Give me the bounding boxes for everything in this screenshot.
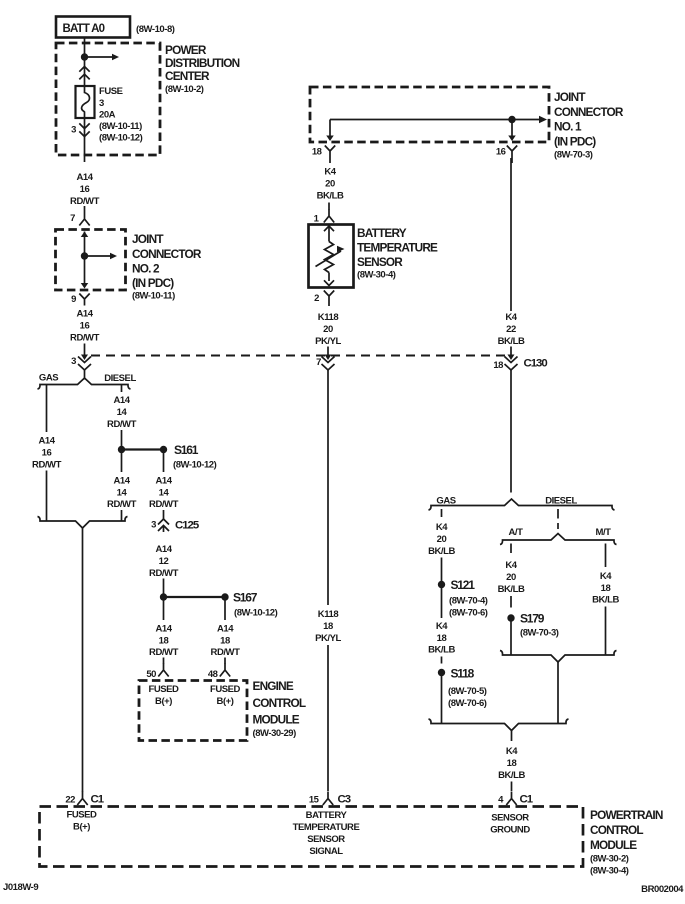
label FUSED B(+) pin48 — [210, 684, 241, 707]
svg-text:20: 20 — [437, 534, 447, 545]
svg-text:C130: C130 — [524, 358, 548, 370]
wire to C130 pin 3 — [84, 344, 86, 357]
split gas/diesel left — [38, 378, 131, 389]
svg-text:C125: C125 — [175, 520, 200, 532]
svg-text:(8W-30-29): (8W-30-29) — [253, 728, 297, 739]
splice S161 — [118, 446, 125, 453]
svg-text:(8W-10-12): (8W-10-12) — [234, 608, 278, 619]
wire JC2 internal — [84, 232, 86, 288]
svg-text:BK/LB: BK/LB — [498, 336, 525, 347]
connector pin 9 fork — [79, 294, 89, 306]
svg-text:16: 16 — [80, 321, 90, 332]
battery feed box BATT A0 — [56, 17, 130, 38]
connector pin 48 fork — [224, 658, 226, 664]
joint connector no.1 box — [310, 87, 549, 142]
svg-text:3: 3 — [99, 98, 104, 109]
wire label K4 18 BK/LB mt — [592, 571, 619, 606]
wire JC1 pin 16 drop — [511, 120, 513, 137]
wire below S161 left — [121, 453, 123, 472]
connector C130 dashed line — [91, 355, 506, 357]
svg-text:(8W-70-3): (8W-70-3) — [554, 150, 593, 161]
wire s161 right to C125 — [163, 510, 165, 519]
svg-text:K4: K4 — [506, 746, 518, 757]
svg-text:(8W-70-5): (8W-70-5) — [448, 686, 487, 697]
svg-text:K4: K4 — [324, 167, 336, 178]
svg-text:CONNECTOR: CONNECTOR — [132, 247, 202, 261]
svg-text:A14: A14 — [38, 436, 55, 447]
label POWER DISTRIBUTION CENTER — [165, 43, 240, 95]
powertrain control module box — [40, 807, 584, 867]
svg-text:18: 18 — [159, 636, 169, 647]
wire M/T upper — [605, 544, 607, 568]
svg-text:3: 3 — [71, 356, 76, 367]
svg-text:2: 2 — [314, 293, 319, 304]
svg-text:(IN PDC): (IN PDC) — [554, 135, 596, 149]
svg-text:RD/WT: RD/WT — [149, 647, 179, 658]
svg-text:CONTROL: CONTROL — [253, 696, 306, 710]
svg-text:3: 3 — [71, 125, 76, 136]
wire merged right stub — [511, 731, 513, 742]
junction dot JC2 — [81, 252, 88, 259]
svg-text:(8W-70-6): (8W-70-6) — [448, 698, 487, 709]
svg-text:18: 18 — [437, 633, 447, 644]
connector pin 18 fork — [325, 146, 335, 164]
svg-text:20: 20 — [323, 324, 333, 335]
merge gas/diesel left — [38, 517, 128, 529]
svg-text:FUSED: FUSED — [210, 684, 241, 695]
merge gas/diesel right — [429, 719, 569, 731]
svg-text:RD/WT: RD/WT — [70, 333, 100, 344]
wire s161 left to merge — [121, 510, 123, 521]
svg-text:7: 7 — [316, 357, 321, 368]
svg-text:(8W-10-11): (8W-10-11) — [132, 291, 175, 302]
svg-text:14: 14 — [117, 407, 128, 418]
svg-text:MODULE: MODULE — [253, 713, 300, 727]
svg-text:S121: S121 — [451, 578, 476, 592]
label SENSOR GROUND — [490, 813, 530, 836]
label ENGINE CONTROL MODULE — [253, 679, 306, 739]
wire C130-3 to split — [84, 370, 86, 379]
wire label A14 16 RD/WT gas — [32, 436, 62, 471]
wire K118 to PCM — [327, 645, 329, 791]
svg-text:S118: S118 — [451, 667, 475, 681]
svg-text:16: 16 — [80, 184, 90, 195]
split gas/diesel right — [429, 499, 615, 510]
svg-text:RD/WT: RD/WT — [107, 419, 137, 430]
wire label A14 12 RD/WT — [149, 544, 179, 579]
junction dot JC1 — [508, 116, 515, 123]
label BATTERY TEMPERATURE SENSOR — [357, 226, 438, 281]
label POWERTRAIN CONTROL MODULE — [590, 808, 663, 877]
svg-text:A14: A14 — [113, 395, 130, 406]
splice S118 — [438, 669, 445, 676]
connector pin 4 fork — [506, 792, 516, 806]
svg-text:(IN PDC): (IN PDC) — [132, 276, 174, 290]
svg-text:18: 18 — [601, 583, 611, 594]
svg-text:A14: A14 — [217, 624, 234, 635]
svg-text:A14: A14 — [155, 624, 172, 635]
wire K118 down — [327, 370, 329, 606]
wire label A14 14 RD/WT s161 left — [107, 476, 137, 511]
chevron pin 2 inside sensor — [324, 280, 334, 285]
svg-text:BATT A0: BATT A0 — [63, 23, 105, 35]
svg-text:DIESEL: DIESEL — [104, 373, 136, 384]
svg-text:POWERTRAIN: POWERTRAIN — [590, 808, 663, 822]
label JOINT CONNECTOR NO. 1 — [554, 90, 624, 161]
wire below S167 right — [224, 601, 226, 621]
label FUSED B(+) pcm — [67, 810, 98, 833]
svg-text:12: 12 — [159, 556, 169, 567]
wire label K4 18 BK/LB gas — [428, 621, 455, 656]
wire gas right to S121 — [441, 558, 443, 582]
svg-text:TEMPERATURE: TEMPERATURE — [293, 822, 360, 833]
svg-text:(8W-10-8): (8W-10-8) — [136, 24, 175, 35]
svg-text:A14: A14 — [155, 544, 172, 555]
engine control module box — [139, 681, 247, 741]
wire diesel branch stub — [121, 385, 123, 392]
bus arrow right in JC2 — [85, 255, 111, 257]
label FUSED B(+) pin50 — [149, 684, 180, 707]
wire BATT A0 to fuse — [84, 37, 86, 86]
wire below S167 left — [163, 601, 165, 621]
svg-text:BK/LB: BK/LB — [428, 546, 455, 557]
svg-text:A14: A14 — [76, 172, 93, 183]
svg-text:S179: S179 — [520, 612, 545, 626]
wire label K118 18 PK/YL — [315, 609, 341, 644]
wire merged right to PCM — [511, 782, 513, 792]
arrow down out of JC2 — [81, 283, 89, 289]
label JOINT CONNECTOR NO. 2 — [132, 232, 202, 302]
svg-text:A14: A14 — [113, 476, 130, 487]
svg-text:(8W-30-4): (8W-30-4) — [590, 866, 629, 877]
svg-text:3: 3 — [151, 520, 156, 531]
svg-text:(8W-10-12): (8W-10-12) — [99, 133, 143, 144]
wire label A14 16 RD/WT lower — [70, 309, 100, 344]
svg-text:20A: 20A — [99, 110, 116, 121]
power distribution center box — [56, 43, 160, 155]
wire label K118 20 PK/YL — [315, 312, 341, 347]
svg-text:B(+): B(+) — [73, 822, 90, 833]
svg-text:15: 15 — [309, 795, 320, 806]
connector pin 15 fork — [323, 792, 333, 806]
thermistor element — [328, 227, 330, 242]
wire to S118 — [441, 657, 443, 664]
fuse 3 20A — [76, 86, 95, 118]
wire gas right stub — [441, 509, 443, 517]
svg-text:18: 18 — [323, 621, 333, 632]
svg-text:SENSOR: SENSOR — [307, 834, 345, 845]
svg-text:BK/LB: BK/LB — [317, 191, 344, 202]
svg-text:BATTERY: BATTERY — [357, 226, 407, 240]
svg-text:(8W-10-12): (8W-10-12) — [173, 460, 217, 471]
wire M/T lower — [605, 607, 607, 656]
svg-text:C3: C3 — [338, 794, 351, 806]
splice S167 — [160, 593, 167, 600]
svg-text:14: 14 — [117, 488, 128, 499]
svg-text:18: 18 — [507, 758, 517, 769]
wire diesel right stub2 — [557, 523, 559, 529]
wire A/T stub — [510, 544, 512, 554]
svg-text:22: 22 — [506, 324, 516, 335]
wire C125 to S167 — [163, 579, 165, 595]
svg-text:9: 9 — [71, 294, 76, 305]
connector chevrons below fuse — [79, 123, 89, 128]
svg-text:M/T: M/T — [595, 527, 611, 538]
svg-text:GAS: GAS — [39, 373, 58, 384]
svg-text:20: 20 — [325, 179, 335, 190]
svg-text:CENTER: CENTER — [165, 69, 210, 83]
svg-text:FUSED: FUSED — [149, 684, 180, 695]
svg-text:K4: K4 — [600, 571, 612, 582]
svg-text:BK/LB: BK/LB — [498, 584, 525, 595]
wire merged left run to PCM — [82, 528, 84, 792]
svg-text:(8W-70-4): (8W-70-4) — [449, 596, 488, 607]
svg-text:A/T: A/T — [509, 527, 524, 538]
wire S179 to merge — [510, 622, 512, 656]
svg-text:16: 16 — [496, 147, 506, 158]
wire label K4 20 BK/LB at — [498, 560, 525, 595]
svg-text:14: 14 — [159, 488, 170, 499]
svg-text:S167: S167 — [233, 591, 258, 605]
svg-text:C1: C1 — [91, 794, 105, 806]
connector pin 2 fork — [324, 291, 334, 307]
arrow down JC1 pin 18 — [326, 136, 334, 142]
svg-text:(8W-30-4): (8W-30-4) — [357, 270, 396, 281]
svg-text:J018W-9: J018W-9 — [3, 882, 38, 893]
wire diesel right stub1 — [557, 509, 559, 519]
svg-text:BK/LB: BK/LB — [592, 595, 619, 606]
wire diesel merged — [557, 662, 559, 724]
svg-text:20: 20 — [506, 572, 516, 583]
svg-text:A14: A14 — [76, 309, 93, 320]
svg-text:CONNECTOR: CONNECTOR — [554, 105, 624, 119]
wire label A14 14 RD/WT diesel — [107, 395, 137, 430]
svg-text:50: 50 — [146, 669, 156, 680]
wire S118 to merge — [441, 676, 443, 724]
svg-text:NO. 2: NO. 2 — [132, 262, 160, 276]
svg-text:SIGNAL: SIGNAL — [309, 846, 343, 857]
wire label K4 22 BK/LB — [498, 312, 525, 347]
svg-text:TEMPERATURE: TEMPERATURE — [357, 241, 438, 255]
svg-text:JOINT: JOINT — [132, 232, 164, 246]
svg-text:48: 48 — [208, 669, 218, 680]
splice S179 — [507, 614, 514, 621]
wire label A14 18 RD/WT s167 right — [211, 624, 241, 659]
svg-text:FUSED: FUSED — [67, 810, 98, 821]
svg-text:K118: K118 — [318, 609, 339, 620]
wire A/T to S179 — [510, 596, 512, 608]
svg-text:(8W-30-2): (8W-30-2) — [590, 854, 629, 865]
svg-text:GROUND: GROUND — [490, 825, 530, 836]
connector pin 22 fork — [77, 792, 87, 806]
svg-text:RD/WT: RD/WT — [32, 460, 62, 471]
svg-text:RD/WT: RD/WT — [107, 499, 137, 510]
svg-text:RD/WT: RD/WT — [70, 196, 100, 207]
splice S121 — [438, 581, 445, 588]
wire below S161 right — [163, 453, 165, 472]
svg-text:C1: C1 — [520, 794, 534, 806]
joint connector no.2 box — [56, 230, 126, 291]
svg-text:RD/WT: RD/WT — [149, 568, 179, 579]
svg-text:BK/LB: BK/LB — [428, 645, 455, 656]
wire K4 to split right — [510, 370, 512, 493]
connector pin 16 fork — [507, 146, 517, 164]
wire S121 down — [441, 588, 443, 618]
svg-text:K4: K4 — [505, 560, 517, 571]
svg-text:K4: K4 — [436, 522, 448, 533]
wire label K4 20 BK/LB gas — [428, 522, 455, 557]
bus arrow right in PDC — [85, 56, 113, 58]
wire label A14 16 RD/WT — [70, 172, 100, 207]
merge A/T M/T — [500, 651, 617, 663]
battery temperature sensor box — [309, 225, 354, 288]
wire JC1-16 to label — [510, 158, 512, 311]
svg-text:BK/LB: BK/LB — [498, 770, 525, 781]
JC1 bus wire — [329, 120, 331, 137]
svg-text:RD/WT: RD/WT — [149, 499, 179, 510]
wire diesel to S161 — [121, 430, 123, 449]
label FUSE 3 20A — [99, 86, 143, 144]
svg-text:(8W-10-11): (8W-10-11) — [99, 121, 142, 132]
wire label A14 18 RD/WT s167 left — [149, 624, 179, 659]
svg-text:NO. 1: NO. 1 — [554, 120, 582, 134]
svg-text:FUSE: FUSE — [99, 86, 123, 97]
connector pin 50 fork — [163, 658, 165, 664]
svg-text:MODULE: MODULE — [590, 838, 637, 852]
svg-text:(8W-70-3): (8W-70-3) — [520, 628, 559, 639]
label BATTERY TEMPERATURE SENSOR SIGNAL — [293, 810, 360, 857]
svg-text:BATTERY: BATTERY — [306, 810, 348, 821]
connector pin 7 fork — [84, 206, 86, 212]
svg-text:(8W-10-2): (8W-10-2) — [165, 84, 204, 95]
connector pin 1 fork — [328, 203, 330, 210]
wire to C130 pin 18 — [510, 347, 512, 357]
svg-text:POWER: POWER — [165, 43, 207, 57]
svg-text:18: 18 — [220, 636, 230, 647]
wire fuse to PDC edge — [84, 118, 86, 162]
arrow up into JC2 — [81, 232, 89, 238]
svg-text:B(+): B(+) — [217, 696, 234, 707]
svg-text:CONTROL: CONTROL — [590, 823, 643, 837]
svg-text:18: 18 — [493, 360, 503, 371]
wire label A14 14 RD/WT s161 right — [149, 476, 179, 511]
svg-text:K4: K4 — [505, 312, 517, 323]
svg-text:PK/YL: PK/YL — [315, 633, 341, 644]
wire gas branch lower — [46, 471, 48, 522]
svg-text:K4: K4 — [436, 621, 448, 632]
svg-text:PK/YL: PK/YL — [315, 336, 341, 347]
wire pin2 to C130 — [327, 347, 329, 357]
svg-text:SENSOR: SENSOR — [491, 813, 529, 824]
svg-text:JOINT: JOINT — [554, 90, 586, 104]
wire label K4 20 BK/LB top — [317, 167, 344, 202]
svg-text:DISTRIBUTION: DISTRIBUTION — [165, 56, 240, 70]
svg-text:18: 18 — [312, 147, 322, 158]
svg-text:SENSOR: SENSOR — [357, 255, 403, 269]
wire label K4 18 BK/LB out — [498, 746, 525, 781]
svg-text:7: 7 — [70, 213, 75, 224]
junction dot PDC bus — [81, 53, 88, 60]
svg-text:K118: K118 — [318, 312, 339, 323]
svg-text:(8W-70-6): (8W-70-6) — [449, 608, 488, 619]
svg-text:BR002004: BR002004 — [641, 884, 684, 895]
svg-text:RD/WT: RD/WT — [211, 647, 241, 658]
svg-text:16: 16 — [42, 448, 52, 459]
svg-text:22: 22 — [65, 795, 75, 806]
svg-text:ENGINE: ENGINE — [253, 679, 294, 693]
svg-text:B(+): B(+) — [155, 696, 172, 707]
wire gas branch upper — [46, 385, 48, 432]
svg-text:A14: A14 — [155, 476, 172, 487]
split A/T M/T — [500, 534, 617, 545]
svg-text:S161: S161 — [174, 443, 199, 457]
connector chevrons above fuse — [79, 67, 89, 72]
